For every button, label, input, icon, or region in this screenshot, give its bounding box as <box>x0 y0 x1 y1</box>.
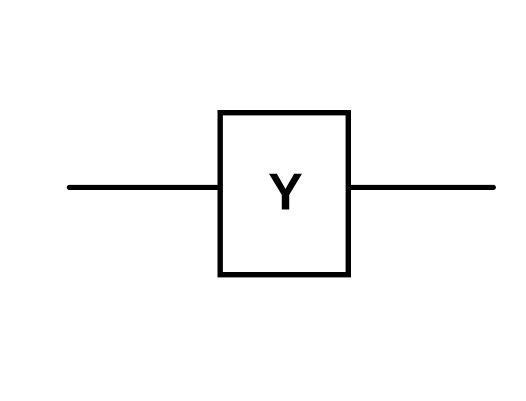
svg-text:Y: Y <box>268 164 303 222</box>
wire: right lead <box>349 185 493 190</box>
admittance box Y <box>220 113 348 275</box>
wire: left lead <box>69 185 220 190</box>
